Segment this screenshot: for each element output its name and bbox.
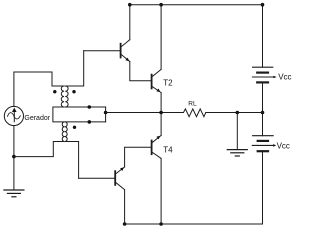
svg-text:Vcc: Vcc xyxy=(278,72,291,81)
svg-text:Gerador: Gerador xyxy=(24,115,50,122)
wire TR1 primary bottom jog to TR2 primary top xyxy=(53,107,64,122)
wire T2 collector to top rail xyxy=(160,5,162,70)
transformer TR2 lower primary winding xyxy=(62,122,64,142)
node battery column at RL wire xyxy=(261,111,265,115)
node TR1 polarity dot left xyxy=(53,90,56,93)
node TR1 polarity dot right xyxy=(72,90,75,93)
wire T3 collector to bottom rail xyxy=(124,190,126,224)
node center tap junction xyxy=(104,111,108,115)
wire bottom rail xyxy=(125,223,263,225)
wire T4 emitter to output node xyxy=(160,113,162,136)
wire TR1 secondary top to T1 base xyxy=(65,51,83,86)
wire right column between batteries xyxy=(262,82,264,135)
transistor T2 xyxy=(152,69,162,92)
node bottom rail T3 collector xyxy=(123,222,127,226)
wire T1 emitter to T2 base xyxy=(130,62,151,81)
node top rail right end xyxy=(261,3,265,7)
wire top rail xyxy=(130,4,263,6)
node dot on lower secondary wire xyxy=(88,120,92,124)
generator G1 xyxy=(4,106,23,125)
wire center tap to output node xyxy=(106,112,184,114)
svg-text:T2: T2 xyxy=(163,78,173,87)
wire TR2 secondary bottom to T3 base xyxy=(65,142,78,179)
wire right column top to Vcc battery xyxy=(262,5,264,67)
wire TR1 secondary bottom to center tap xyxy=(65,106,105,108)
svg-text:Vcc: Vcc xyxy=(277,142,290,151)
svg-text:T4: T4 xyxy=(163,145,173,154)
battery -Vcc xyxy=(252,136,276,152)
transformer TR1 upper primary winding xyxy=(61,86,64,107)
node top rail T2 collector xyxy=(159,3,163,7)
wire TR2 secondary top to center tap xyxy=(65,121,105,123)
wire T3 emitter to T4 base xyxy=(125,147,151,167)
wire T4 collector to bottom rail xyxy=(160,158,162,224)
node bottom rail T4 collector xyxy=(159,222,163,226)
transistor T1 xyxy=(84,40,130,62)
node ground branch junction xyxy=(236,111,240,115)
wire generator top to transformer primary xyxy=(14,72,64,106)
resistor RL xyxy=(184,109,206,117)
wire ground branch xyxy=(236,113,238,149)
node TR2 polarity dot right xyxy=(73,126,76,129)
transformer TR1 upper secondary winding xyxy=(65,86,68,107)
node generator column junction xyxy=(12,155,16,159)
wire T1 collector to top rail xyxy=(129,5,131,40)
wire T2 emitter to output node xyxy=(160,93,162,113)
transistor T4 xyxy=(152,135,162,158)
node top rail left end xyxy=(128,3,132,7)
transistor T3 xyxy=(79,167,125,190)
svg-text:RL: RL xyxy=(188,101,197,108)
ground bottom left xyxy=(4,190,24,197)
ground middle xyxy=(227,150,247,156)
wire right column bottom to bottom rail xyxy=(262,151,264,224)
node dot on upper secondary wire xyxy=(88,105,92,109)
node output junction xyxy=(159,111,163,115)
wire RL to battery column xyxy=(206,112,263,114)
battery Vcc xyxy=(252,67,276,82)
wire TR2 primary bottom to generator column xyxy=(14,142,64,157)
transformer TR2 lower secondary winding xyxy=(65,122,67,142)
wire generator bottom to ground xyxy=(13,126,15,190)
wire center tap vertical xyxy=(105,107,107,122)
